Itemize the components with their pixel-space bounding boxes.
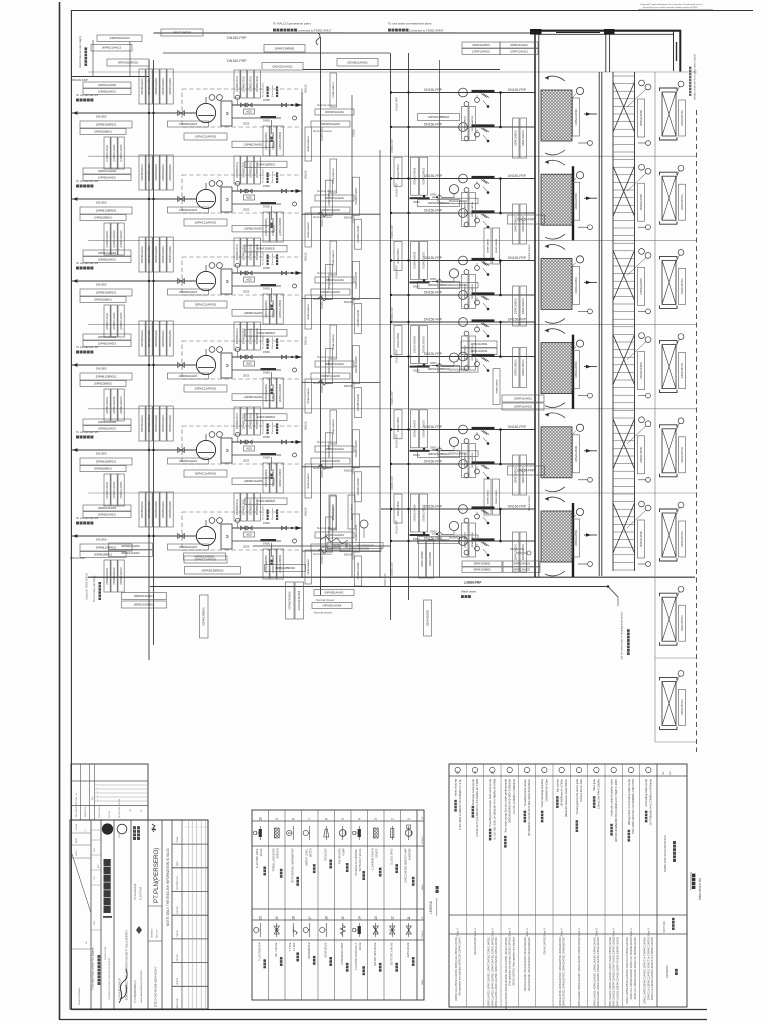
svg-text:To condenser #6: To condenser #6 xyxy=(76,516,99,520)
svg-text:10PAB51AA021: 10PAB51AA021 xyxy=(148,77,151,95)
drain instrument screen 3 xyxy=(578,310,588,312)
SWEPDI logo xyxy=(102,824,112,834)
svg-text:FLUX INDEXER: FLUX INDEXER xyxy=(258,942,261,960)
svg-text:3.0mx1.5m H=10m: 3.0mx1.5m H=10m xyxy=(579,778,583,802)
svg-text:(30PAF12AA002: (30PAF12AA002 xyxy=(113,567,116,585)
motor box M row 5 xyxy=(221,438,232,463)
label 10PAA21AT001 screen 1 xyxy=(638,99,645,137)
label box 30PAB12BB001 xyxy=(80,552,126,558)
hydraulic control butterfly valve branch B row 2 xyxy=(472,210,495,213)
svg-text:11: 11 xyxy=(473,771,477,774)
valve 2 row 1 xyxy=(247,103,252,107)
label box 00PAD51AA002 row 5 xyxy=(311,458,350,464)
svg-text:SCREEN: SCREEN xyxy=(277,848,280,859)
label box 10PAF11BB002 row 1 xyxy=(418,114,460,121)
svg-text:10PAB52AA031: 10PAB52AA031 xyxy=(155,163,158,181)
svg-text:0625: 0625 xyxy=(246,196,252,199)
small gauge branch B row 6 xyxy=(464,550,469,555)
pump 20PAC11AP001 row 3 xyxy=(196,271,215,290)
svg-text:DN50: DN50 xyxy=(263,287,270,291)
svg-text:DN150-FRP: DN150-FRP xyxy=(395,520,399,534)
svg-text:00GAA13AA001: 00GAA13AA001 xyxy=(449,368,468,371)
svg-text:DN150: DN150 xyxy=(353,129,356,137)
svg-text:30PAF11BB002: 30PAF11BB002 xyxy=(428,452,449,456)
position indicator branch A row 2 xyxy=(475,184,480,189)
drain instrument screen 6 xyxy=(578,563,588,565)
svg-text:DN150-FRP: DN150-FRP xyxy=(395,434,399,448)
svg-text:20PAF13AB001: 20PAF13AB001 xyxy=(515,359,518,376)
svg-text:Flu dens switch: Flu dens switch xyxy=(262,168,265,183)
svg-text:Normal closed: Normal closed xyxy=(317,526,336,530)
svg-text:00GAB01AA050: 00GAB01AA050 xyxy=(355,355,358,373)
motor box M row 2 xyxy=(221,187,232,212)
svg-text:DN150-FRP: DN150-FRP xyxy=(424,123,443,127)
svg-text:0625: 0625 xyxy=(246,533,252,536)
svg-text:Sets 6: Sets 6 xyxy=(542,928,546,937)
svg-text:00PAD51AA003: 00PAD51AA003 xyxy=(325,590,344,594)
arrow to condenser row 6 xyxy=(72,534,78,538)
svg-text:DN150: DN150 xyxy=(304,336,308,345)
label box 00PAD51AA002 row 3 xyxy=(311,289,350,295)
travelling band screen 6 (hatched) xyxy=(541,511,572,562)
row boundary line 2 xyxy=(88,155,697,157)
label box 10PAF12AA002 row 2 xyxy=(83,168,131,174)
motor box M row 6 xyxy=(221,524,232,549)
outer left border line xyxy=(59,2,61,1020)
level instrument screen 2 xyxy=(576,172,583,179)
drawing frame top edge xyxy=(71,10,753,12)
motor box M row 1 xyxy=(221,101,232,126)
gauge circle row 1 xyxy=(293,116,297,120)
suction header extension row 6 xyxy=(381,508,391,510)
discharge pipe A row 3 xyxy=(232,272,302,274)
svg-text:10PAA21AT001: 10PAA21AT001 xyxy=(640,109,643,126)
instrument cluster at row boundary 4 xyxy=(232,394,478,502)
label box 30PAB11BR001 xyxy=(80,458,132,465)
svg-text:00GAA17B001: 00GAA17B001 xyxy=(397,416,400,432)
svg-text:10PAF12BR005: 10PAF12BR005 xyxy=(257,500,275,503)
small gauge branch A row 1 xyxy=(464,102,469,107)
svg-text:(Two operation one standby) 00: (Two operation one standby) 00GAC14AP001 xyxy=(509,936,512,985)
device list row 5: Closing groove for sluice gate xyxy=(575,767,583,1007)
bar screen X panel 3 xyxy=(613,250,635,300)
svg-text:Y TYPE: Y TYPE xyxy=(289,942,292,951)
svg-text:DN150-FRP: DN150-FRP xyxy=(395,97,399,111)
svg-text:00GAA13AA001: 00GAA13AA001 xyxy=(449,200,468,203)
svg-text:(30PAF11AB003: (30PAF11AB003 xyxy=(279,469,282,487)
hydraulic control butterfly valve branch B row 1 xyxy=(472,124,495,127)
svg-text:(10PAF12AA001: (10PAF12AA001 xyxy=(106,230,109,248)
discharge pipe A row 2 xyxy=(232,190,302,192)
lower gauge bar screen 5 xyxy=(638,479,646,481)
svg-text:00PAD51AA002: 00PAD51AA002 xyxy=(321,459,340,463)
svg-text:DEVICE: DEVICE xyxy=(376,848,379,858)
pipe riser DN150-FRP at x390 xyxy=(390,53,392,620)
svg-text:DN150-FR: DN150-FR xyxy=(510,547,524,551)
label box 10PAB11BB001 xyxy=(80,129,126,135)
svg-text:20PAA21AT001-30PAA22AT001 20PA: 20PAA21AT001-30PAA22AT001 20PAA22AT001-3… xyxy=(563,936,566,1006)
label box 30PAF12BB002 row 6 xyxy=(418,537,460,544)
svg-text:(10PAB12AA004: (10PAB12AA004 xyxy=(244,396,263,399)
vent circle row 2 xyxy=(235,181,239,185)
pipe to NALCO generation plant xyxy=(154,32,532,34)
vent circle row 6 xyxy=(235,518,239,522)
label 0625 row 3 xyxy=(244,277,255,282)
label box 10PAF12BB002 row 2 xyxy=(418,200,460,207)
svg-text:DN150: DN150 xyxy=(304,84,308,93)
flexible joint on NALCO pipe xyxy=(316,33,320,45)
row boundary line 6 xyxy=(88,492,697,494)
legend row 8: DIFFERENTIAL MANOMETER xyxy=(287,818,299,886)
discharge pipe B row 1 xyxy=(232,117,281,119)
svg-text:NOTE: ONLY THE ENGLISH INFORMA: NOTE: ONLY THE ENGLISH INFORMATION IS VA… xyxy=(166,847,170,926)
svg-text:2625: 2625 xyxy=(243,545,250,549)
svg-text:Copyright(C) rights belonging: Copyright(C) rights belonging to the cor… xyxy=(640,3,703,6)
svg-text:30PAB52AA041: 30PAB52AA041 xyxy=(162,500,165,518)
svg-text:DN150-FRP: DN150-FRP xyxy=(424,505,443,509)
flow guide arc top screen 3 xyxy=(545,244,565,249)
svg-text:SCALE: SCALE xyxy=(75,823,78,830)
svg-text:10PAA11AA001-40PAA11AA001 10PA: 10PAA11AA001-40PAA11AA001 10PAA12AA001-4… xyxy=(593,936,596,1007)
svg-text:00GA321AA012: 00GA321AA012 xyxy=(272,64,293,68)
svg-text:20PAB11AA003: 20PAB11AA003 xyxy=(179,291,197,294)
svg-text:(30PAF11AA002: (30PAF11AA002 xyxy=(113,481,116,499)
svg-text:BUTTERFLY VALVE: BUTTERFLY VALVE xyxy=(390,942,393,965)
svg-text:DN100: DN100 xyxy=(344,468,353,472)
svg-text:DN150-FRP: DN150-FRP xyxy=(227,36,247,40)
legend row 12: BUTTERFLY VALVE xyxy=(389,916,398,972)
svg-text:DN50: DN50 xyxy=(263,119,270,123)
device list row 8: Travelling band screen xyxy=(523,767,531,991)
lower gauge bar screen 2 xyxy=(638,226,646,228)
svg-text:DN150-FRP: DN150-FRP xyxy=(395,265,399,279)
svg-text:00GAA17AA004: 00GAA17AA004 xyxy=(413,504,416,522)
svg-text:30PAB51AA031: 30PAB51AA031 xyxy=(155,414,158,432)
svg-text:DN150-FRP: DN150-FRP xyxy=(424,88,443,92)
svg-text:To condenser #1: To condenser #1 xyxy=(76,93,99,97)
tag stack lower-left row 4 xyxy=(104,389,110,421)
label 10PAA21AT001 screen 3 xyxy=(638,267,645,305)
drain header line row6 xyxy=(253,545,390,547)
instrument cluster at row boundary 3 xyxy=(232,310,478,418)
svg-text:10PAA11BT001: 10PAA11BT001 xyxy=(681,362,684,379)
device list row 9: Sea water pump (for sea water pretreatment) xyxy=(503,767,516,1009)
middle channel wall line 2 xyxy=(609,34,611,72)
svg-text:ELECTRIC BUTTERFLY: ELECTRIC BUTTERFLY xyxy=(355,942,358,970)
svg-text:Sets 6: Sets 6 xyxy=(560,928,564,937)
svg-text:10PAF12BR001: 10PAF12BR001 xyxy=(257,163,275,166)
valve 1 row 2 xyxy=(240,189,245,193)
svg-text:2625: 2625 xyxy=(243,122,250,126)
svg-text:10PAA21AT001: 10PAA21AT001 xyxy=(640,193,643,210)
valve 2 row 5 xyxy=(247,440,252,444)
svg-text:REDUCER: REDUCER xyxy=(324,848,327,861)
svg-text:M: M xyxy=(226,364,230,367)
label box 00PAD51AA001 row 4 xyxy=(315,361,354,367)
svg-text:DN150-FRP: DN150-FRP xyxy=(391,562,394,576)
gauge circle row 5 xyxy=(293,453,297,457)
stop log gate 3 xyxy=(660,250,686,309)
legend row 3: CLEANING TRASH DEVICE xyxy=(372,818,382,877)
svg-text:Sets 6: Sets 6 xyxy=(577,928,581,937)
svg-text:30PAB11AA001: 30PAB11AA001 xyxy=(98,427,116,430)
svg-text:Normal closed: Normal closed xyxy=(314,611,332,615)
svg-text:10PAA21AT001: 10PAA21AT001 xyxy=(640,446,643,463)
label 0625 row 2 xyxy=(244,195,255,200)
label 0625 row 5 xyxy=(244,446,255,451)
legend row 10: ELECTRIC GATE VALVE xyxy=(254,817,266,875)
drain drop line row 5 xyxy=(271,457,273,471)
svg-text:7: 7 xyxy=(308,818,312,820)
valve tag stack row 1 xyxy=(462,107,469,141)
svg-text:DN150-FRP: DN150-FRP xyxy=(424,209,443,213)
valve 2 row 4 xyxy=(247,355,252,359)
flow tick screen 2 xyxy=(584,197,597,199)
drain drop line row 4 xyxy=(271,372,273,386)
expansion joint branch A row 1 xyxy=(459,88,468,97)
svg-text:20PAB12AA001: 20PAB12AA001 xyxy=(98,342,116,345)
svg-text:30PAB12BB001: 30PAB12BB001 xyxy=(94,553,112,556)
pump 30PAC11AP001 row 5 xyxy=(196,440,215,459)
instrument circle bar screen 3 xyxy=(639,249,645,255)
instrument tag stack left row 1 xyxy=(139,69,145,104)
svg-text:(10PAB12AA005: (10PAB12AA005 xyxy=(244,480,263,483)
svg-text:10PAB12AA001: 10PAB12AA001 xyxy=(98,176,116,179)
svg-text:LEGEND: LEGEND xyxy=(429,900,433,914)
stop log gate 6 xyxy=(660,502,686,561)
svg-text:WATER LEVEL: WATER LEVEL xyxy=(306,848,309,866)
svg-text:30PAB11AA003: 30PAB11AA003 xyxy=(179,460,197,463)
svg-text:10PAF13BR001: 10PAF13BR001 xyxy=(274,46,294,50)
svg-text:10PAA11AT001: 10PAA11AT001 xyxy=(575,108,578,125)
hydraulic control butterfly valve branch A row 4 xyxy=(472,319,495,322)
label box 10PAB12BR001 xyxy=(80,207,132,214)
svg-text:DN1800: DN1800 xyxy=(96,115,107,119)
svg-text:00GAA13AA001: 00GAA13AA001 xyxy=(449,452,468,455)
svg-text:10PAB11BB001: 10PAB11BB001 xyxy=(94,130,112,133)
svg-text:00GAA17AA005: 00GAA17AA005 xyxy=(422,335,425,353)
svg-text:16: 16 xyxy=(324,916,328,920)
svg-text:00GAA17AA004: 00GAA17AA004 xyxy=(413,335,416,353)
svg-text:30PAB12AA001: 30PAB12AA001 xyxy=(121,544,140,548)
svg-text:10PAA11AT001: 10PAA11AT001 xyxy=(575,445,578,462)
svg-text:10PAB12BB001: 10PAB12BB001 xyxy=(94,216,112,219)
svg-text:20PAB12BR001: 20PAB12BR001 xyxy=(96,375,117,379)
suction valve row 4 xyxy=(178,362,185,367)
small gauge branch B row 1 xyxy=(464,136,469,141)
lower gauge bar screen 4 xyxy=(638,395,646,397)
valve 2 row 2 xyxy=(247,189,252,193)
legend row 6: REDUCER xyxy=(324,818,332,869)
legend row 14: ELECTRIC BUTTERFLY VALVE xyxy=(353,916,365,975)
instrument circle b row 3 xyxy=(217,263,223,269)
small gauge branch A row 4 xyxy=(464,331,469,336)
svg-text:30PAF11AA023: 30PAF11AA023 xyxy=(513,563,530,566)
label box 20PAB11BB001 xyxy=(80,297,126,303)
svg-text:NAME: NAME xyxy=(421,979,424,985)
label box 00PAD11AA012 xyxy=(91,45,132,52)
flow tick screen 1 xyxy=(584,113,597,115)
svg-text:10PAB11BR001: 10PAB11BR001 xyxy=(96,123,117,127)
instrument tag stack left row 3 xyxy=(139,237,145,272)
svg-text:WL: WL xyxy=(141,809,143,812)
svg-text:Normal closed: Normal closed xyxy=(528,244,531,260)
svg-text:2008-09: 2008-09 xyxy=(109,811,111,818)
strainer bars row 4 xyxy=(261,368,277,370)
svg-text:20PAF12BB004: 20PAF12BB004 xyxy=(332,333,335,349)
valve 1 row 5 xyxy=(240,440,245,444)
svg-text:30PAF13BB01: 30PAF13BB01 xyxy=(486,489,489,504)
svg-text:(20PAF12AA002: (20PAF12AA002 xyxy=(98,336,117,339)
svg-text:8: 8 xyxy=(291,818,295,820)
svg-text:9: 9 xyxy=(275,818,279,820)
svg-text:10PAF11BB001: 10PAF11BB001 xyxy=(328,273,331,290)
svg-text:00PAD11BR002: 00PAD11BR002 xyxy=(118,61,139,65)
label box 00PAD51AA001 row 6 xyxy=(315,532,354,538)
drain drop line row 2 xyxy=(271,206,273,220)
label box 00PAD51AA001 row 5 xyxy=(315,446,354,452)
stop log gate 1 xyxy=(660,81,686,140)
svg-text:One operation one standby) 00P: One operation one standby) 00PAC15A-10BP… xyxy=(459,936,462,996)
svg-text:REV DESCRIPTION: REV DESCRIPTION xyxy=(76,797,78,817)
svg-text:Drainage sump pump: Drainage sump pump xyxy=(471,779,475,805)
svg-text:(10PAF11AB003: (10PAF11AB003 xyxy=(279,132,282,150)
svg-text:M: M xyxy=(226,280,230,283)
svg-text:CLEANING TRASH: CLEANING TRASH xyxy=(372,848,375,870)
svg-text:(20PAF11AA001: (20PAF11AA001 xyxy=(106,312,109,330)
svg-text:(10PAB12AA003: (10PAB12AA003 xyxy=(244,312,263,315)
gauge circle row 3 xyxy=(293,284,297,288)
svg-text:DN150-FRP: DN150-FRP xyxy=(508,425,527,429)
svg-text:00PAC22TAA006: 00PAC22TAA006 xyxy=(298,590,301,610)
svg-text:CSEC: CSEC xyxy=(119,832,121,838)
svg-text:20PAF13BB05: 20PAF13BB05 xyxy=(495,379,498,394)
svg-text:Intake channel from jetty dock: Intake channel from jetty dock basin xyxy=(693,53,697,100)
stop log gate 7 xyxy=(660,586,686,645)
svg-text:DN50: DN50 xyxy=(430,446,437,449)
svg-text:00GAA52B002: 00GAA52B002 xyxy=(426,609,429,626)
intake right wall outer xyxy=(679,30,681,72)
svg-text:10PAA11AT001: 10PAA11AT001 xyxy=(575,192,578,209)
svg-text:DN100: DN100 xyxy=(344,216,353,220)
svg-text:& MOTOR: & MOTOR xyxy=(409,848,412,860)
svg-text:P0668-S0302A-M: P0668-S0302A-M xyxy=(78,987,81,1005)
svg-text:APPROVAL: APPROVAL xyxy=(176,998,179,1008)
discharge pipe A row 6 xyxy=(232,527,302,529)
svg-text:SYMBOL: SYMBOL xyxy=(422,931,424,939)
discharge pipe B row 4 xyxy=(232,369,281,371)
svg-text:VENT VALVE: VENT VALVE xyxy=(324,942,327,957)
instrument tag stack left row 4 xyxy=(139,321,145,356)
svg-text:YKKL1000-16/1730-1 N=1800kW U=: YKKL1000-16/1730-1 N=1800kW U=6kV IP54 xyxy=(631,779,635,835)
label 0625 row 1 xyxy=(244,109,255,114)
svg-text:10PAA11BT001: 10PAA11BT001 xyxy=(681,614,684,631)
svg-text:10PAB52AA051: 10PAB52AA051 xyxy=(169,163,172,181)
legend row 15: EXPANSION JOINT xyxy=(340,916,348,972)
svg-text:10PAA11BT001: 10PAA11BT001 xyxy=(681,109,684,126)
small gauge branch A row 5 xyxy=(464,439,469,444)
row boundary line 3 xyxy=(88,239,697,241)
svg-text:10PAF11AP001 10PAF12AP001 10P: 10PAF11AP001 10PAF12AP001 10PAFT2AP001-T… xyxy=(488,936,491,1007)
svg-text:POWER CHINA: POWER CHINA xyxy=(104,946,107,960)
svg-text:DN150-FRP: DN150-FRP xyxy=(321,295,324,309)
pump unit dashed enclosure row 1 xyxy=(182,89,302,127)
expansion joint branch A row 5 xyxy=(459,425,468,434)
svg-text:DN150-FRP: DN150-FRP xyxy=(424,425,443,429)
svg-text:DN50: DN50 xyxy=(263,521,270,525)
label box 10PAC11AP001 xyxy=(184,133,227,140)
svg-text:10PAF12BR002: 10PAF12BR002 xyxy=(257,248,275,251)
svg-text:30PAB11BB001: 30PAB11BB001 xyxy=(94,467,112,470)
svg-text:30PAB12AA003: 30PAB12AA003 xyxy=(179,546,197,549)
flow tick screen 3 xyxy=(584,281,597,283)
svg-text:00GAA11AP001-00GAA13AP001 00GA: 00GAA11AP001-00GAA13AP001 00GAC11AP001-0… xyxy=(505,936,508,1009)
svg-text:10PAF13BB01: 10PAF13BB01 xyxy=(486,238,489,253)
branch connector row 4 xyxy=(500,322,502,357)
svg-text:14: 14 xyxy=(357,916,361,920)
label box 30PAC11AP001 xyxy=(184,470,227,477)
svg-text:Connect to 72955-S0415A: Connect to 72955-S0415A xyxy=(86,572,89,600)
level instrument screen 3 xyxy=(576,256,583,263)
svg-text:00PAD13AA011: 00PAD13AA011 xyxy=(134,594,154,598)
svg-text:DN150-FRP: DN150-FRP xyxy=(395,349,399,363)
valve tag stack row 6 xyxy=(462,523,469,557)
svg-text:00GAB01AA050: 00GAB01AA050 xyxy=(355,524,358,542)
label box 30PAC12AP001 xyxy=(184,556,227,563)
hydraulic control butterfly valve branch B row 6 xyxy=(472,538,495,541)
svg-text:DN50: DN50 xyxy=(430,362,437,365)
flow guide arc top screen 1 xyxy=(545,76,565,81)
svg-text:30PAF11AP001-30PAF12AP001 30PA: 30PAF11AP001-30PAF12AP001 30PAFT2AP001-3… xyxy=(495,936,498,1007)
svg-text:REVISED AS SHOWN: REVISED AS SHOWN xyxy=(118,798,121,818)
travelling band screen 1 (hatched) xyxy=(541,90,572,141)
svg-text:DN150: DN150 xyxy=(304,252,308,261)
svg-text:10PAA11AA001-30PAA12AA001 10PA: 10PAA11AA001-30PAA12AA001 10PAA12AA001-3… xyxy=(578,936,581,1007)
svg-text:00GAA17AA005: 00GAA17AA005 xyxy=(422,504,425,522)
wall junction black square 2 xyxy=(604,29,615,35)
svg-text:00PAD12AA004: 00PAD12AA004 xyxy=(307,387,310,404)
svg-text:(10PAF11AA002: (10PAF11AA002 xyxy=(98,84,117,87)
svg-text:DN150: DN150 xyxy=(304,170,308,179)
gauge circle row 6 xyxy=(293,539,297,543)
label box 10PAB12AA001 row 2 xyxy=(83,175,131,181)
small gauge branch B row 4 xyxy=(464,366,469,371)
branch pipe A row 2 xyxy=(391,178,535,180)
svg-text:30PAF12AA001: 30PAF12AA001 xyxy=(121,551,140,555)
svg-text:10PAB12BR001: 10PAB12BR001 xyxy=(96,209,117,213)
svg-text:00GAA17AA005: 00GAA17AA005 xyxy=(422,420,425,438)
svg-text:(30PAF11AA003: (30PAF11AA003 xyxy=(120,481,123,499)
small gauge branch B row 2 xyxy=(464,222,469,227)
label box 10PAB11AA003 xyxy=(168,121,209,127)
label 10PAA21AT001 screen 2 xyxy=(638,183,645,221)
arrow into riser row 1 xyxy=(296,103,302,107)
label box 20PAF12BB002 row 4 xyxy=(418,366,460,373)
device list row 10: Travelling band screen back wash pump xyxy=(488,767,499,1007)
instrument circle bar screen 1 xyxy=(639,80,645,86)
instrument circle a row 2 xyxy=(209,181,215,187)
svg-text:10PAA11AT001: 10PAA11AT001 xyxy=(575,529,578,546)
label 10PAA21AT001 screen 6 xyxy=(638,520,645,558)
valve tag stack row 5 xyxy=(462,444,469,478)
svg-text:10PAF12BB002: 10PAF12BB002 xyxy=(428,201,450,205)
hydraulic control butterfly valve branch A row 3 xyxy=(472,258,495,261)
svg-text:(10PAF12AB003: (10PAF12AB003 xyxy=(279,217,282,235)
svg-text:00PAD51AA002: 00PAD51AA002 xyxy=(321,122,340,126)
stop log row divider a xyxy=(655,657,697,659)
svg-text:QZM4500 N=13kw: QZM4500 N=13kw xyxy=(545,779,549,802)
svg-text:20PAF12AA023: 20PAF12AA023 xyxy=(464,344,467,360)
